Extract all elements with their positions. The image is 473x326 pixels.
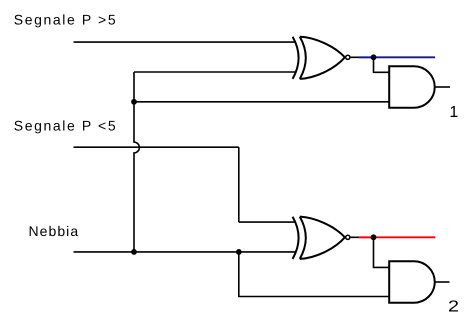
wire: riser branch to AND U2 input B (134, 101, 389, 103)
wire: AND U4 output (435, 281, 450, 283)
svg-text:Segnale P >5: Segnale P >5 (14, 11, 117, 27)
junction: riser to AND U2 input B (131, 99, 137, 105)
svg-text:Nebbia: Nebbia (29, 223, 80, 239)
junction: XNOR U1 output node (371, 54, 377, 60)
wire: junction drop to AND U4 input A (374, 237, 390, 267)
XNOR gate U3 (293, 217, 350, 259)
XNOR gate U1 (293, 37, 350, 79)
wire: XNOR U1 output to junction (351, 56, 374, 58)
svg-text:2: 2 (448, 298, 459, 315)
wire: Nebbia branch down to AND U4 input B (239, 252, 389, 297)
junction: Nebbia and riser (131, 249, 137, 255)
wire: Nebbia horizontal to XNOR U3 input B (74, 251, 296, 253)
wire: Segnale P <5 horizontal run (74, 146, 239, 148)
wire: AND U2 output (435, 86, 450, 88)
junction: XNOR U3 output node (371, 234, 377, 240)
wire: Segnale P <5 vertical drop at x=238.5 (238, 147, 240, 222)
wire: XNOR U3 output to junction (351, 236, 374, 238)
net 2 highlight (red) (359, 236, 436, 238)
wire: Segnale P >5 to XNOR U1 input A (74, 41, 296, 43)
AND gate U4 (389, 261, 435, 303)
net 1 highlight (blue) (359, 56, 435, 58)
AND gate U2 (389, 66, 435, 108)
wire: Nebbia riser x=134 with hop over Segnale P <5 (134, 72, 139, 252)
wire: junction drop to AND U2 input A (374, 57, 390, 72)
wire: riser to XNOR U1 input B (134, 71, 296, 73)
svg-text:1: 1 (449, 104, 458, 121)
junction: Nebbia and branch to AND U4 (236, 249, 242, 255)
svg-text:Segnale P <5: Segnale P <5 (14, 117, 117, 133)
wire: Segnale P <5 to XNOR U3 input A (239, 221, 296, 223)
